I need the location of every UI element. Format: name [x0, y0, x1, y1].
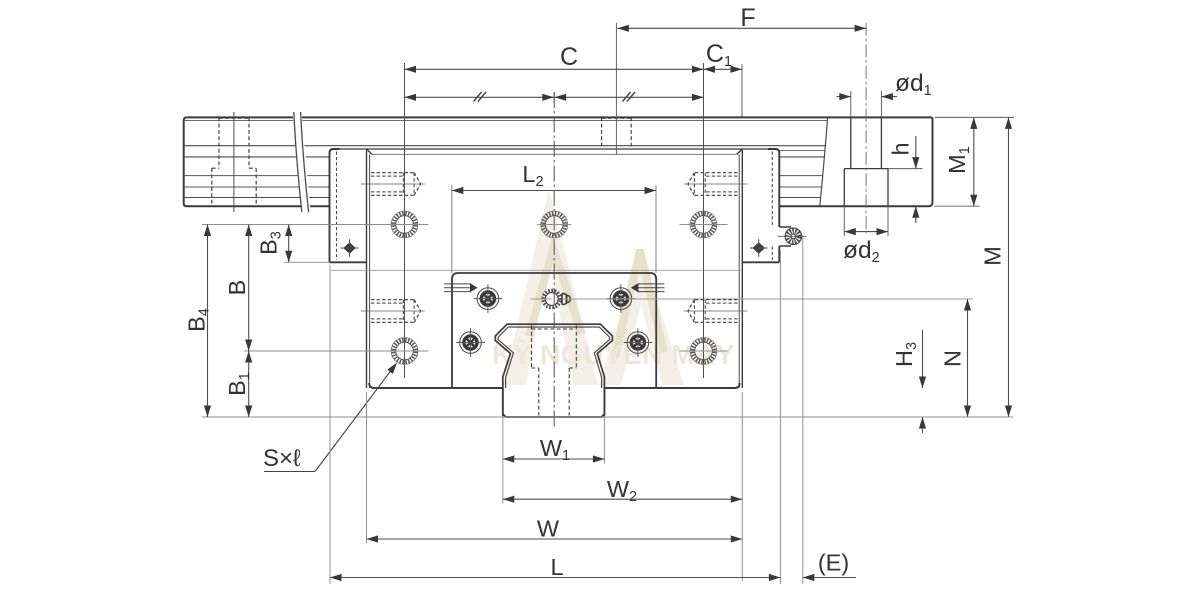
dim N [967, 299, 969, 417]
rail break symbol [293, 112, 311, 212]
carriage cap top edge [338, 148, 776, 150]
carriage bottom edge [369, 383, 503, 388]
dim F [617, 27, 866, 29]
top reference line [202, 224, 425, 226]
rail profile outer [495, 324, 612, 416]
dim M [1008, 117, 1010, 417]
rail shank below carriage [503, 388, 605, 417]
dim C [405, 68, 704, 70]
plate screw lower-left [460, 332, 482, 354]
dim C1 [704, 68, 743, 70]
F extension line [615, 23, 617, 155]
h extension [888, 168, 923, 170]
dim W2 [503, 498, 743, 500]
plate screw lower-right [627, 332, 649, 354]
rail section bolt hole (hidden) [531, 326, 533, 369]
W left extension [366, 392, 368, 543]
svg-text:B: B [224, 280, 250, 296]
svg-text:C: C [560, 43, 578, 71]
hidden seal lines (dashed) [336, 152, 338, 261]
mid reference line [244, 350, 425, 352]
bottom reference line [202, 416, 1013, 418]
C1 extension [741, 64, 743, 117]
dim E [803, 577, 856, 579]
svg-text:F: F [740, 4, 755, 32]
dim phi-d2 [844, 231, 888, 233]
svg-text:S×ℓ: S×ℓ [263, 445, 301, 472]
rail profile inner [498, 327, 609, 388]
svg-text:(E): (E) [818, 550, 849, 576]
mounting hole bottom-left [390, 337, 418, 365]
L extensions [329, 265, 331, 584]
d2 extensions [843, 208, 845, 237]
rail groove lines [184, 119, 828, 121]
mounting hole bottom-right [689, 337, 717, 365]
E extension [802, 236, 804, 584]
diamond screw right [752, 242, 765, 254]
M1/M top extension [935, 116, 1015, 118]
lube arrow left [444, 283, 471, 285]
dim phi-d1 [837, 96, 851, 98]
center extension tick [553, 92, 555, 103]
lube arrow right [637, 283, 664, 285]
watermark logo M [503, 189, 598, 385]
W1 extensions [502, 417, 504, 504]
dim B4 [207, 225, 209, 418]
mounting hole top-center [540, 210, 568, 238]
set screw lower-left [371, 299, 414, 301]
dim H3 [922, 330, 924, 388]
carriage cap left edge [330, 149, 341, 262]
rail left hole centerline [233, 112, 235, 212]
hole column centerlines [404, 63, 406, 378]
notch extension line [284, 261, 330, 263]
equality mark left [474, 92, 482, 102]
carriage cap right edge [768, 149, 779, 227]
rail left hole (hidden) [218, 117, 220, 168]
S leader arrow [315, 367, 394, 472]
carriage notch steps [330, 261, 367, 263]
dim L2 [452, 190, 656, 192]
mounting hole top-right [689, 210, 717, 238]
carriage body top edge + chamfers [372, 153, 737, 155]
equality mark right [623, 92, 631, 102]
rail right hole section [850, 117, 852, 168]
d1 extensions [850, 91, 852, 117]
set screw lower-right [694, 299, 737, 301]
svg-text:L: L [550, 554, 563, 580]
svg-text:N: N [940, 350, 966, 367]
rail centerline [553, 92, 555, 428]
rail section slant [820, 117, 828, 206]
svg-text:W: W [537, 516, 560, 542]
diamond screw left [343, 242, 356, 254]
dim B1 [248, 351, 250, 417]
dim B [248, 225, 250, 352]
rail outline [187, 117, 933, 206]
dim M1 [973, 117, 975, 206]
M1 bottom extension [935, 205, 980, 207]
svg-text:M: M [980, 246, 1006, 266]
mounting hole top-left [390, 210, 418, 238]
dim W1 [503, 458, 605, 460]
grease nipple [542, 289, 562, 309]
dim W [367, 538, 743, 540]
side grease port boss [779, 226, 791, 228]
set screw upper-right [694, 172, 737, 174]
svg-text:h: h [888, 142, 914, 155]
hidden body line [331, 269, 741, 271]
dim B3 [288, 225, 290, 263]
dim L [330, 577, 780, 579]
W2/W right extension [741, 392, 743, 581]
rail mid hole (hidden) [601, 117, 603, 148]
cap/body boundary lines [366, 150, 368, 388]
rail right hole centerline [865, 23, 867, 234]
dim h [915, 136, 917, 169]
L2 extensions [451, 185, 453, 273]
port screw right [610, 288, 632, 310]
port screw left [477, 288, 499, 310]
dim C/2 right [555, 96, 704, 98]
set screw upper-left [371, 172, 414, 174]
end plate outline [452, 273, 656, 388]
dim C/2 left [405, 96, 554, 98]
nipple/N reference line [531, 298, 552, 300]
